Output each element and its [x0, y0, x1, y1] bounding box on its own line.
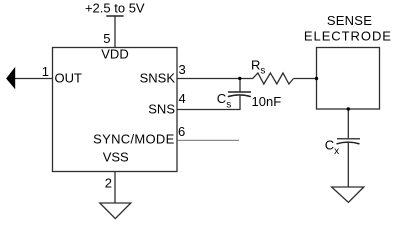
junction node SNSK/Cs/Rs — [238, 77, 241, 80]
svg-text:VSS: VSS — [103, 150, 129, 165]
svg-text:1: 1 — [42, 64, 49, 79]
svg-text:VDD: VDD — [101, 47, 128, 62]
junction node electrode left edge — [315, 77, 318, 80]
svg-text:+2.5 to 5V: +2.5 to 5V — [85, 1, 145, 16]
wire VDD (power bar to pin 5) — [114, 16, 116, 48]
svg-text:4: 4 — [179, 91, 186, 106]
svg-text:SNSK: SNSK — [140, 71, 176, 86]
svg-text:6: 6 — [178, 124, 185, 139]
svg-text:3: 3 — [179, 62, 186, 77]
wire SNSK net right segment — [294, 78, 317, 80]
svg-text:10nF: 10nF — [252, 94, 282, 109]
sense electrode box — [317, 48, 380, 110]
op-amp U1 (touch sensor IC body) — [53, 48, 178, 172]
resistor Rs zigzag — [253, 73, 294, 84]
power rail bar +2.5 to 5V — [106, 15, 123, 17]
svg-text:SNS: SNS — [148, 102, 175, 117]
svg-text:5: 5 — [103, 31, 110, 46]
capacitor Cs top lead — [239, 79, 241, 93]
wire OUT (pin 1 to arrow) — [15, 78, 53, 80]
wire VSS (pin 2 to ground) — [114, 172, 116, 204]
svg-text:ELECTRODE: ELECTRODE — [304, 28, 392, 43]
ground symbol (left, VSS) — [100, 203, 131, 219]
wire SNS net (pin 4 to capacitor Cs) — [177, 109, 241, 111]
svg-text:OUT: OUT — [55, 71, 83, 86]
junction node electrode bottom — [347, 107, 350, 110]
wire SYNC/MODE stub (pin 6) — [178, 139, 240, 141]
svg-text:SENSE: SENSE — [327, 13, 372, 28]
capacitor Cs top plate — [228, 91, 251, 93]
capacitor Cs curved plate — [228, 95, 251, 97]
capacitor Cx bottom lead wire to ground — [347, 142, 349, 187]
wire electrode bottom to Cx — [347, 109, 349, 139]
svg-text:SYNC/MODE: SYNC/MODE — [93, 132, 174, 147]
wire SNSK net (pin 3 to electrode) — [177, 78, 253, 80]
capacitor Cx curved plate — [337, 142, 360, 144]
capacitor Cx top plate — [337, 138, 360, 140]
capacitor Cs bottom lead — [239, 95, 241, 110]
OUT arrow — [6, 67, 15, 89]
svg-text:2: 2 — [105, 176, 112, 191]
ground symbol (right, under Cx) — [332, 187, 364, 202]
